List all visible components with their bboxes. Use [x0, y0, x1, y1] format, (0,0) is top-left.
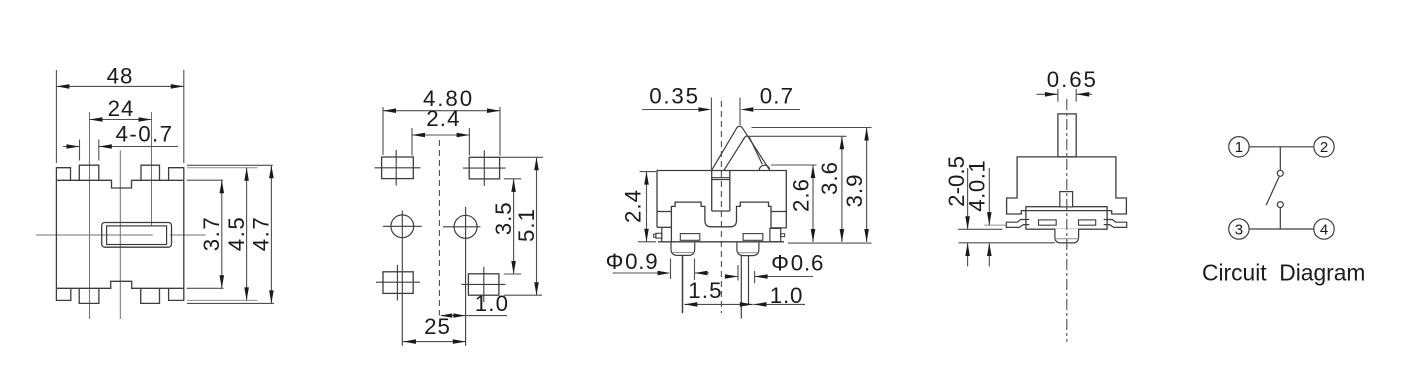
view 3: left side pin nub	[654, 234, 656, 237]
view 3: dashed vertical centerline	[720, 101, 722, 313]
view 1: dim 24 dimension line with arrows	[90, 119, 152, 121]
view 1: dim 48 dimension line with arrows	[56, 85, 183, 87]
svg-text:4: 4	[1320, 221, 1328, 238]
view 3: dim 0.35 dimension line and arrow	[642, 109, 699, 111]
view 1: horizontal centerline right part	[170, 234, 206, 236]
circuit: lower contact circle	[1277, 202, 1283, 208]
view 1: dim 48 extension lines	[55, 70, 57, 163]
view 1: actuator inner rectangle	[107, 226, 167, 245]
view 2: dim 1.0 dimension line with opposed arrows	[441, 315, 507, 317]
view 3: dim 3.9 extension line (lever apex top)	[752, 127, 872, 129]
view 3: left side pin	[656, 233, 662, 238]
svg-text:24: 24	[108, 96, 135, 121]
view 2: hole circle right cross lines	[443, 226, 480, 228]
view 2: dim 4.80 extension lines	[382, 107, 384, 155]
circuit: switch arm	[1266, 177, 1279, 206]
view 2: pad bottom-right cross lines	[461, 283, 505, 285]
view 1: dim 3.7 extension lines	[187, 179, 223, 181]
view 3: dim 2.6 extension line (lever foot level)	[771, 164, 817, 166]
view 1: dim 4.7 dimension line with arrows	[270, 165, 272, 303]
view 4: base slot right	[1079, 220, 1096, 225]
svg-text:Φ: Φ	[771, 251, 789, 276]
view 2: dim 25 dimension line with arrows	[403, 341, 466, 343]
view 1: dim 24 right extension line	[151, 112, 153, 226]
view 2: pad bottom-left cross lines	[376, 281, 420, 283]
view 1: actuator outer rectangle	[102, 223, 172, 248]
view 4: dash-dot centerline	[1066, 99, 1068, 342]
svg-text:0.65: 0.65	[1047, 67, 1098, 92]
view 1: top tab T2	[79, 165, 99, 180]
svg-text:25: 25	[424, 314, 451, 339]
view 3: base slot right	[743, 234, 763, 241]
view 1: bottom tab B4	[169, 288, 184, 300]
svg-text:4.0.1: 4.0.1	[964, 160, 989, 212]
view 2: pad top-right cross lines	[463, 167, 506, 169]
svg-text:2.6: 2.6	[789, 178, 814, 212]
view 3: dim 3.6 dimension line with arrows	[841, 136, 843, 242]
view 3: dim 2.4 dimension line with arrows	[646, 172, 648, 242]
view 1: top tab T3	[141, 165, 160, 180]
view 1: dim 4.7 extension lines	[187, 164, 273, 166]
view 4: dim 2-0.5 dimension line with outside arrows	[967, 168, 969, 229]
circuit: top junction stub wire	[1279, 147, 1281, 170]
svg-text:48: 48	[107, 64, 134, 89]
view 3: dim 3.6 extension line (lever inner apex)	[749, 135, 847, 137]
view 3: common bottom extension line for 2.6/3.6/3.9	[788, 242, 872, 244]
view 4: base outline	[1026, 207, 1107, 230]
svg-text:3.7: 3.7	[199, 216, 224, 252]
view 3: lever foot arc	[759, 165, 770, 170]
view 4: extension line dome bottom	[959, 242, 1055, 244]
view 3: cap bottom edge left segment	[657, 211, 671, 213]
view 2: dim 5.1 extension lines	[500, 156, 543, 158]
circuit: bottom wire	[1249, 228, 1314, 230]
svg-text:1.5: 1.5	[688, 278, 723, 303]
view 3: lever arm inner edge	[724, 136, 762, 170]
view 3: metal cap outline	[657, 171, 786, 229]
view 3: yoke blocks and saddle profile	[671, 202, 786, 242]
view 2: hole circle left cross lines	[383, 225, 422, 227]
view 1: dim 24 left extension line (through tab)	[89, 112, 91, 319]
circuit: terminal 3	[1229, 219, 1249, 239]
svg-text:0.9: 0.9	[625, 249, 658, 274]
view 3: dim phi 0.6 extension ticks	[737, 265, 739, 281]
view 2: dim 2.4 dimension line with arrows	[412, 134, 470, 136]
view 3: dim phi 0.9 dimension line and outside arrows	[613, 272, 658, 274]
view 3: dim 0.7 dimension line and arrow	[754, 109, 800, 111]
view 2: dim 3.5 extension lines	[504, 178, 521, 180]
svg-text:5.1: 5.1	[514, 208, 539, 242]
view 2: dim 4.80 dimension line with arrows	[383, 110, 500, 112]
view 1: dim 4-0.7 extension lines	[79, 140, 81, 161]
view 4: cap outline with brim	[1007, 157, 1127, 214]
svg-text:2.4: 2.4	[426, 106, 461, 131]
circuit: top wire	[1249, 146, 1314, 148]
svg-text:0.35: 0.35	[649, 84, 700, 109]
view 4: left gull-wing lead	[1006, 220, 1029, 228]
view 2: pad top-left	[382, 157, 414, 179]
view 2: dim 5.1 dimension line with arrows	[536, 157, 538, 295]
view 1: dim 4.5 dimension line with arrows	[246, 168, 248, 301]
view 3: dim 0.7 extension line (lever apex)	[739, 98, 741, 126]
svg-text:1.0: 1.0	[475, 291, 510, 316]
view 4: dim 4.0.1 dimension line with outside arrows	[988, 168, 990, 225]
view 3: left wire pin	[682, 255, 684, 313]
view 3: right leg with dome foot	[737, 242, 759, 256]
view 3: base slot left	[680, 234, 700, 241]
view 3: dim 2.6 dimension line with arrows	[812, 165, 814, 242]
svg-text:4-0.7: 4-0.7	[116, 122, 174, 147]
view 4: base slot left	[1039, 220, 1057, 225]
view 2: hole circle right	[454, 215, 477, 238]
view 4: dome seam line	[1055, 238, 1079, 240]
view 1: bottom tab B1	[56, 288, 70, 300]
view 4: right gull-wing lead	[1104, 220, 1127, 228]
view 3: dim 1.0 arrow and tail	[754, 303, 806, 305]
svg-text:3.9: 3.9	[842, 174, 867, 208]
view 1: bottom tab B3	[141, 288, 160, 303]
view 3: stem collar lines	[712, 177, 730, 179]
svg-text:1: 1	[1235, 139, 1243, 156]
svg-text:4.7: 4.7	[249, 216, 274, 252]
svg-text:3: 3	[1235, 221, 1243, 238]
view 1: dim 4-0.7 dimension line with outside arrows	[63, 146, 80, 148]
view 3: dim 0.35 extension line (stem left)	[710, 98, 712, 171]
circuit: terminal 4	[1314, 219, 1334, 239]
view 2: pad top-right	[469, 157, 499, 179]
view 3: dim 3.9 dimension line with arrows	[866, 128, 868, 243]
view 3: base bottom edge	[658, 241, 784, 243]
view 3: dim 1.5 dimension line with arrows	[684, 303, 753, 305]
svg-text:Φ: Φ	[606, 249, 624, 274]
view 4: extension line base bottom	[958, 228, 1002, 230]
view 1: dim 4.5 extension lines	[187, 167, 257, 169]
circuit: terminal 2	[1314, 137, 1334, 157]
view 1: vertical centerline	[119, 151, 121, 320]
view 1: top tab T4	[169, 168, 184, 181]
svg-text:0.6: 0.6	[791, 251, 824, 276]
view 3: right wire pin	[740, 256, 742, 319]
circuit: terminal 1	[1229, 137, 1249, 157]
view 1: switch body outline	[55, 180, 57, 288]
view 3: right pin support block	[770, 228, 781, 241]
view 3: base top edge left segment	[657, 226, 671, 228]
view 1: switch top view — horizontal centerline left part	[36, 234, 153, 236]
svg-text:3.5: 3.5	[491, 201, 516, 235]
view 4: dim 0.65 extension lines	[1057, 89, 1059, 102]
view 2: pad bottom-left	[383, 272, 413, 294]
circuit: bottom junction stub wire	[1279, 208, 1281, 229]
svg-text:0.7: 0.7	[760, 84, 795, 109]
view 2: hole circle left	[391, 215, 414, 238]
view 2: dashed vertical centerline	[438, 140, 440, 316]
view 3: dim phi 0.6 dimension line and outside arrows	[725, 276, 739, 278]
view 3: plunger stem	[711, 171, 713, 212]
view 3: cap bottom edge right segment	[771, 211, 786, 213]
view 3: right leg lip line	[738, 252, 757, 254]
view 2: pad top-left cross lines	[375, 167, 421, 169]
view 4: center tongue	[1060, 192, 1073, 207]
svg-text:1.0: 1.0	[770, 283, 803, 308]
svg-text:2: 2	[1320, 139, 1328, 156]
circuit: upper contact circle	[1277, 170, 1283, 176]
view 2: dim 2.4 extension lines	[411, 128, 413, 156]
view 1: dim 3.7 dimension line with arrows	[221, 180, 223, 288]
view 3: base left inner vertical	[661, 227, 663, 242]
view 1: top tab T1	[56, 168, 70, 181]
svg-text:4.5: 4.5	[224, 216, 249, 252]
view 3: dim phi 0.9 extension ticks	[670, 258, 672, 279]
view 4: bottom dome	[1055, 229, 1079, 243]
view 3: left leg with dome foot	[671, 242, 695, 256]
view 3: dim 2.4 extension lines	[640, 171, 656, 173]
view 3: lever arm outer edge	[712, 126, 770, 170]
view 2: pad bottom-right	[468, 274, 499, 295]
svg-text:2.4: 2.4	[620, 189, 645, 223]
view 4: dim 0.65 dimension line and outside arrows	[1037, 93, 1058, 95]
view 3: right side pin nub	[781, 234, 785, 237]
view 3: left leg lip line	[672, 252, 693, 254]
view 4: plunger stem	[1058, 114, 1076, 157]
svg-text:Circuit Diagram: Circuit Diagram	[1202, 260, 1365, 286]
view 2: dim 3.5 dimension line with arrows	[513, 179, 515, 274]
svg-text:3.6: 3.6	[817, 161, 842, 195]
view 1: bottom tab B2	[79, 288, 99, 303]
view 4: extension line lead foot (gray)	[984, 224, 1006, 226]
